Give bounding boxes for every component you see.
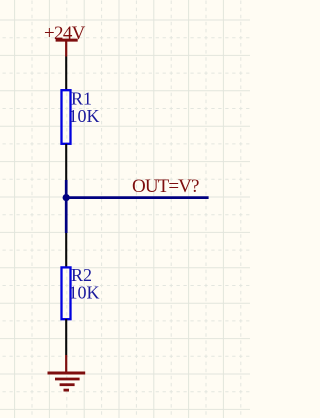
resistor R1 [62,90,71,144]
wire pin top of R2 [65,233,67,267]
resistor R2 [62,267,71,319]
ground stem [65,355,67,372]
wire pin bottom of R2 [65,319,67,355]
ground bar 1 [48,372,86,375]
wire pin bottom of R1 [65,144,67,180]
ground bar 2 [55,378,80,381]
svg-text:10K: 10K [69,283,100,303]
ground bar 3 [60,383,75,386]
wire horizontal OUT [66,196,208,199]
wire pin top of R1 [65,57,67,91]
wire vertical segment [65,180,68,233]
ground bar 4 [64,389,70,392]
power port bar symbol [56,40,78,56]
svg-text:10K: 10K [69,106,100,126]
junction node [63,194,70,201]
svg-text:OUT=V?: OUT=V? [132,176,199,197]
